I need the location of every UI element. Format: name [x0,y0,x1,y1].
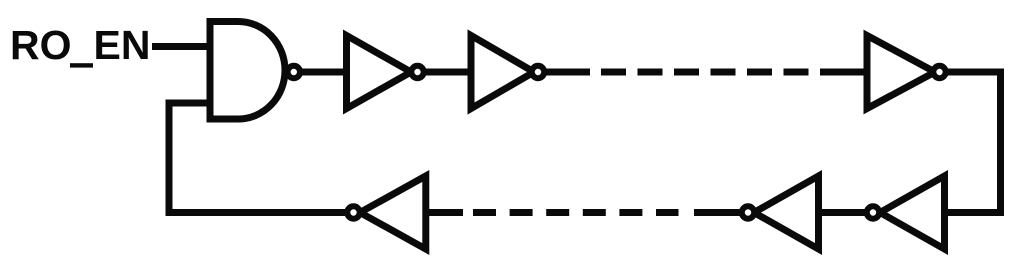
inverter U5 (bottom row, right) [880,176,945,249]
NAND U1 output bubble [288,66,300,78]
wire dashed continuation (top row) [601,69,809,76]
inverter U3 output bubble [532,66,544,78]
NAND gate U1 body [210,22,285,120]
wire dashed continuation (bottom row) [473,209,679,216]
wire top-right solid, right vertical drop, into bottom row [820,72,1001,213]
wire NAND output to inverter chain (solid segment) [298,69,590,76]
wire RO_EN input to NAND pin 1 [152,43,213,50]
inverter U4 output bubble [933,66,945,78]
inverter U7 output bubble [347,206,359,218]
inverter U6 (bottom row, middle) [754,176,819,249]
svg-text:RO: RO [10,22,72,68]
wire bottom row solid right segment [694,209,944,216]
wire feedback: NAND pin 2, left vertical, bottom-left solid run [169,103,463,213]
inverter U3 (top row, second) [471,36,534,109]
inverter U4 (top row, right) [867,36,935,109]
inverter U7 (bottom row, left) [360,176,426,249]
inverter U2 output bubble [411,66,423,78]
inverter U6 output bubble [742,206,754,218]
svg-text:EN: EN [94,22,151,68]
inverter U2 (top row, first) [347,36,412,109]
inverter U5 output bubble [867,206,879,218]
